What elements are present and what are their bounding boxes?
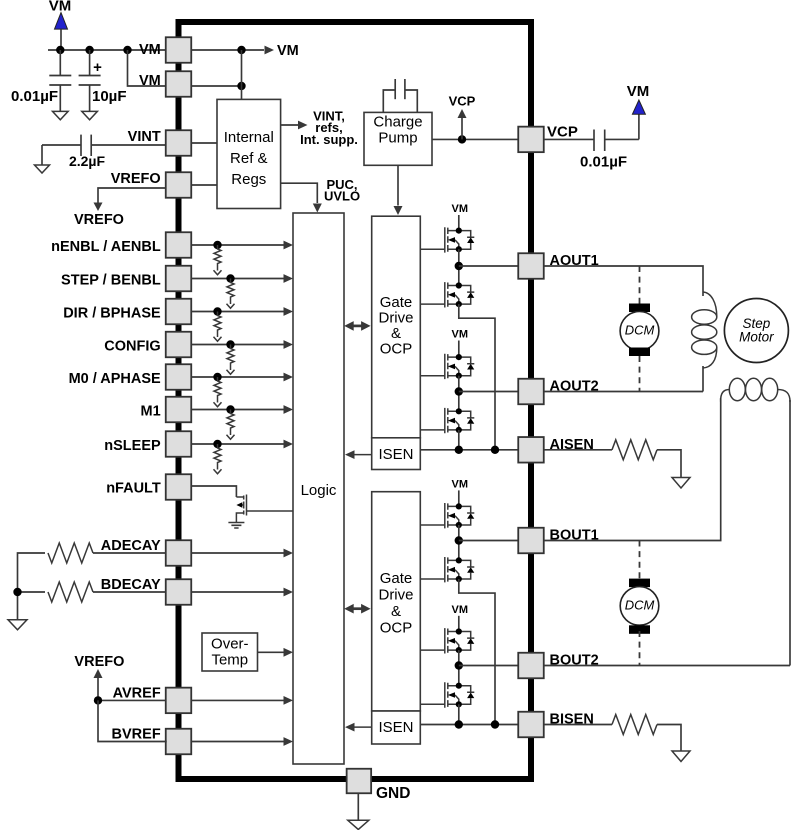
pin BVREF <box>112 727 192 755</box>
wire VM supply rail <box>48 49 166 51</box>
wire VM to Q drain (A2 high) <box>458 341 460 358</box>
motor M1 DCM (A) <box>620 304 659 357</box>
svg-text:DCM: DCM <box>625 598 655 613</box>
node junction DIR / BPHASE <box>213 307 221 315</box>
svg-text:M0 / APHASE: M0 / APHASE <box>69 371 161 387</box>
resistor R-BISEN <box>612 715 657 735</box>
wire A2 low source to sense rail <box>458 430 460 450</box>
svg-text:Over-: Over- <box>211 636 249 653</box>
label PUC UVLO <box>324 177 360 204</box>
node junction nENBL / AENBL <box>213 241 221 249</box>
svg-text:+: + <box>93 59 102 76</box>
svg-text:10µF: 10µF <box>92 88 127 105</box>
svg-text:VCP: VCP <box>547 124 578 141</box>
inductor L-A phase winding <box>692 292 717 368</box>
svg-text:Drive: Drive <box>378 310 413 327</box>
svg-text:VM: VM <box>139 42 161 58</box>
svg-text:ISEN: ISEN <box>378 446 413 463</box>
svg-text:&: & <box>391 325 401 342</box>
wire gate (A1 low) <box>420 303 445 305</box>
block U6 Gate Drive & OCP (B) <box>372 492 421 711</box>
svg-text:GND: GND <box>376 785 410 802</box>
resistor pulldown (nENBL / AENBL) <box>214 245 222 275</box>
wire ADECAY to Logic <box>191 549 293 558</box>
resistor pulldown (CONFIG) <box>227 345 235 375</box>
transistor Q A2 high-side <box>445 354 475 379</box>
bus Logic-GateDriveB double arrow <box>344 604 370 614</box>
wire M0 / APHASE to Logic <box>191 373 293 382</box>
label C2 10uF <box>92 88 127 105</box>
wire DCM B dashed (top) <box>639 541 641 579</box>
wire VINT refs Int.supp arrow <box>281 121 308 130</box>
wire VM pin2 to internal node <box>191 50 246 99</box>
svg-text:VM: VM <box>49 0 72 15</box>
wire winding B to BOUT2 <box>544 400 790 666</box>
pin VM (1) <box>139 37 191 63</box>
wire DCM A dashed (top) <box>639 266 641 304</box>
wire half-bridge B2 <box>455 650 463 686</box>
wire gate (A2 low) <box>420 429 445 431</box>
wire gate (B2 low) <box>420 703 445 705</box>
node junction CONFIG <box>226 340 234 348</box>
wire sense rail B <box>420 720 518 728</box>
bus Logic-GateDriveA double arrow <box>344 321 370 331</box>
wire AOUT2 out <box>459 391 518 393</box>
label C3 2.2uF <box>69 153 106 169</box>
wire VM to Q drain (B1 high) <box>458 490 460 506</box>
svg-text:BDECAY: BDECAY <box>101 577 161 593</box>
svg-text:VINT: VINT <box>128 129 161 145</box>
pin AOUT1 <box>518 253 598 279</box>
svg-text:M1: M1 <box>141 404 161 420</box>
svg-text:Internal: Internal <box>224 129 274 146</box>
transistor Q B2 low-side <box>445 682 475 707</box>
ground (GND main) <box>348 820 369 829</box>
wire BISEN <box>544 724 612 726</box>
svg-text:DCM: DCM <box>625 323 655 338</box>
wire nENBL / AENBL to Logic <box>191 241 293 250</box>
svg-text:Int. supp.: Int. supp. <box>300 132 358 147</box>
wire winding A to AOUT2 <box>544 366 703 392</box>
svg-text:Regs: Regs <box>231 171 266 188</box>
wire DIR / BPHASE to Logic <box>191 307 293 316</box>
svg-text:DIR / BPHASE: DIR / BPHASE <box>63 306 161 322</box>
pin VINT <box>128 129 192 156</box>
svg-text:VM: VM <box>139 73 161 89</box>
power net VM label (A1) <box>452 203 469 215</box>
pin M1 <box>141 397 192 423</box>
power net VM label (B2) <box>452 604 469 616</box>
wire ISEN B to Logic <box>345 723 372 732</box>
wire BVREF to Logic <box>191 737 293 746</box>
pin AISEN <box>518 437 594 463</box>
wire ADECAY to ground rail <box>18 553 46 592</box>
node junction decay ground <box>13 588 45 620</box>
transistor Q B1 low-side <box>445 557 475 582</box>
wire ADECAY <box>93 552 166 554</box>
power net VM label (A2) <box>452 329 469 341</box>
resistor R-AISEN <box>612 440 657 460</box>
svg-text:VM: VM <box>452 604 469 616</box>
transistor Q B1 high-side <box>445 503 475 528</box>
wire AOUT1 to winding A <box>544 266 703 296</box>
ground (C3) <box>35 165 50 173</box>
svg-text:nENBL / AENBL: nENBL / AENBL <box>51 239 161 255</box>
svg-text:nFAULT: nFAULT <box>106 481 161 497</box>
wire CONFIG to Logic <box>191 340 293 349</box>
power flag VM (top-left) <box>49 0 72 50</box>
wire VM to Q drain (A1 high) <box>458 215 460 231</box>
block ISEN (B) <box>372 711 421 744</box>
capacitor C1 0.01uF <box>49 50 71 111</box>
pin nFAULT <box>106 474 191 500</box>
block U5 Gate Drive & OCP (A) <box>372 216 421 438</box>
wire GND to ground <box>357 793 359 820</box>
wire AISEN resistor to ground <box>657 450 681 478</box>
capacitor C3 2.2uF <box>42 135 166 165</box>
svg-text:Logic: Logic <box>301 482 337 499</box>
wire BOUT1 to winding B <box>544 398 721 541</box>
ground (AISEN) <box>672 478 690 489</box>
node junction nSLEEP <box>213 440 221 448</box>
wire BDECAY to Logic <box>191 588 293 597</box>
pin VM (2) <box>139 71 191 97</box>
svg-text:Ref &: Ref & <box>230 150 268 167</box>
wire BDECAY <box>93 591 166 593</box>
pin ADECAY <box>101 538 191 566</box>
wire nFAULT to Q9 drain <box>191 486 236 497</box>
wire ISEN A to Logic <box>345 450 372 459</box>
wire STEP / BENBL to Logic <box>191 274 293 283</box>
label VREFO (node) <box>74 212 124 228</box>
pin VREFO <box>111 171 192 198</box>
svg-text:0.01µF: 0.01µF <box>580 154 627 171</box>
wire M1 to Logic <box>191 405 293 414</box>
IC boundary DRV block outline <box>179 22 532 779</box>
wire AVREF <box>94 696 166 704</box>
svg-text:VM: VM <box>452 478 469 490</box>
pin DIR / BPHASE <box>63 299 191 325</box>
wire Q9 gate to Logic <box>247 510 294 512</box>
pin AOUT2 <box>518 379 598 405</box>
resistor pulldown (M0 / APHASE) <box>214 377 222 407</box>
pin CONFIG <box>104 332 191 358</box>
wire DCM B dashed (bottom) <box>639 631 641 666</box>
node junction dots on VM rail <box>56 46 132 54</box>
pin GND <box>347 769 411 802</box>
wire nSLEEP to Logic <box>191 440 293 449</box>
svg-text:2.2µF: 2.2µF <box>69 153 106 169</box>
wire DCM A dashed (bottom) <box>639 356 641 392</box>
wire BISEN resistor to ground <box>657 725 681 752</box>
wire gate (B2 high) <box>420 649 445 651</box>
block U4 Over-Temp <box>202 633 258 671</box>
capacitor CP flying cap <box>383 79 417 112</box>
resistor pulldown (STEP / BENBL) <box>227 279 235 309</box>
svg-text:Motor: Motor <box>739 330 774 345</box>
pin AVREF <box>113 685 192 713</box>
motor M2 DCM (B) <box>620 579 659 634</box>
wire gate (B1 high) <box>420 524 445 526</box>
wire half-bridge B1 <box>455 525 463 560</box>
resistor R-ADECAY <box>48 543 93 563</box>
wire A1 low source to sense <box>459 304 495 450</box>
ground (C2) <box>82 111 98 119</box>
transistor Q A1 high-side <box>445 227 475 252</box>
pin BISEN <box>518 712 594 738</box>
wire AOUT1 out <box>459 265 518 267</box>
pin BOUT2 <box>518 653 598 679</box>
wire BOUT2 out <box>459 665 518 667</box>
ground (C1) <box>53 111 69 119</box>
wire VM to Q drain (B2 high) <box>458 616 460 632</box>
node VREFO output arrow <box>94 188 166 211</box>
wire B1 low source to sense <box>459 579 495 725</box>
svg-text:UVLO: UVLO <box>324 189 360 204</box>
svg-text:Temp: Temp <box>211 652 248 669</box>
wire VINT to Internal Ref block <box>191 142 217 144</box>
svg-text:ISEN: ISEN <box>378 719 413 736</box>
wire BVREF <box>98 700 167 741</box>
inductor L-B phase winding <box>721 378 790 402</box>
svg-text:OCP: OCP <box>380 341 413 358</box>
wire AVREF to Logic <box>191 696 293 705</box>
ground (decay) <box>8 620 27 630</box>
svg-text:BVREF: BVREF <box>112 727 161 743</box>
wire AISEN <box>544 449 612 451</box>
wire to VM pin 2 <box>128 50 167 86</box>
svg-text:ADECAY: ADECAY <box>101 538 161 554</box>
transistor Q A2 low-side <box>445 408 475 433</box>
capacitor C4 0.01uF <box>544 130 639 152</box>
pin STEP / BENBL <box>61 266 191 292</box>
wire gate (A1 high) <box>420 248 445 250</box>
svg-text:VCP: VCP <box>449 94 476 109</box>
block U1 Internal Ref & Regs <box>217 99 281 208</box>
motor M3 Step Motor <box>724 299 788 363</box>
wire BOUT1 out <box>459 540 518 542</box>
svg-text:VM: VM <box>627 83 650 100</box>
power flag VM (right) <box>627 83 650 139</box>
resistor pulldown (DIR / BPHASE) <box>214 312 222 342</box>
svg-text:AVREF: AVREF <box>113 685 161 701</box>
ground (BISEN) <box>672 751 690 762</box>
wire Over-Temp to Logic <box>258 648 294 657</box>
svg-text:VREFO: VREFO <box>111 171 161 187</box>
node VCP arrow <box>449 94 476 140</box>
resistor pulldown (M1) <box>227 410 235 440</box>
resistor R-BDECAY <box>48 582 93 602</box>
pin nSLEEP <box>104 431 191 457</box>
svg-text:0.01µF: 0.01µF <box>11 88 58 105</box>
pin BOUT1 <box>518 528 598 554</box>
svg-text:VREFO: VREFO <box>74 654 124 670</box>
wire VREFO to Internal Ref block <box>191 184 217 186</box>
transistor Q A1 low-side <box>445 282 475 307</box>
svg-text:Gate: Gate <box>380 570 413 587</box>
wire gate (B1 low) <box>420 578 445 580</box>
ground (Q9 source, earth) <box>228 523 244 529</box>
wire VM internal rail <box>191 46 264 54</box>
pin M0 / APHASE <box>69 364 192 390</box>
label C4 0.01uF <box>580 154 627 171</box>
wire half-bridge A2 <box>455 376 463 412</box>
wire half-bridge A1 <box>455 249 463 285</box>
block U2 Charge Pump <box>364 112 432 165</box>
node junction M0 / APHASE <box>213 373 221 381</box>
svg-text:Pump: Pump <box>378 130 417 147</box>
block ISEN (A) <box>372 438 421 470</box>
block U3 Logic <box>293 213 344 764</box>
pin BDECAY <box>101 577 191 605</box>
node VM internal arrow <box>265 43 299 59</box>
node junction M1 <box>226 405 234 413</box>
svg-text:Drive: Drive <box>378 587 413 604</box>
resistor pulldown (nSLEEP) <box>214 444 222 474</box>
svg-text:Gate: Gate <box>380 294 413 311</box>
wire B2 low source to sense rail <box>458 704 460 724</box>
wire gate (A2 high) <box>420 375 445 377</box>
svg-text:VREFO: VREFO <box>74 212 124 228</box>
wire PUC UVLO to Logic <box>281 183 322 212</box>
svg-text:Charge: Charge <box>373 114 422 131</box>
wire Charge Pump to Gate Drive A <box>394 165 403 215</box>
svg-text:VM: VM <box>277 43 299 59</box>
svg-text:OCP: OCP <box>380 620 413 637</box>
wire Charge Pump to VCP pin <box>432 135 518 143</box>
transistor Q9 nFAULT open-drain <box>236 495 246 523</box>
capacitor C2 10uF (polarized) <box>79 50 103 111</box>
svg-text:VM: VM <box>452 203 469 215</box>
svg-text:STEP / BENBL: STEP / BENBL <box>61 273 161 289</box>
pin nENBL / AENBL <box>51 232 191 258</box>
node junction STEP / BENBL <box>226 274 234 282</box>
svg-text:nSLEEP: nSLEEP <box>104 438 161 454</box>
svg-text:&: & <box>391 603 401 620</box>
power net VM label (B1) <box>452 478 469 490</box>
svg-text:VM: VM <box>452 329 469 341</box>
wire sense rail A <box>420 446 518 454</box>
label C1 0.01uF <box>11 88 58 105</box>
node VREFO reference arrow <box>74 654 124 700</box>
pin VCP <box>518 124 578 153</box>
transistor Q B2 high-side <box>445 628 475 653</box>
label VINT refs Int. supp. <box>300 109 358 148</box>
svg-text:CONFIG: CONFIG <box>104 339 160 355</box>
